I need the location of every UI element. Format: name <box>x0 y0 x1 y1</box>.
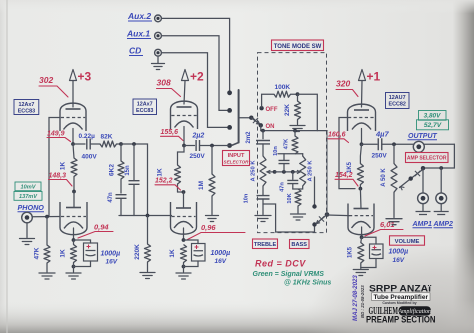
svg-text:10n: 10n <box>244 193 250 203</box>
wire to AMP2 jack <box>440 168 442 193</box>
tone mid rail <box>275 170 299 174</box>
label OUTPUT <box>408 133 438 140</box>
supply arrow +3 <box>70 70 92 108</box>
V2a cathode node <box>182 127 186 148</box>
svg-text:AMP SELECTOR: AMP SELECTOR <box>407 156 447 162</box>
voltage label 154,2 <box>335 172 358 186</box>
V3b plate node <box>359 187 363 209</box>
V1b cathode node <box>72 228 76 242</box>
resistor 220K <box>134 216 151 272</box>
svg-text:160,6: 160,6 <box>328 132 346 139</box>
bass potentiometer A 250 K <box>300 154 314 186</box>
ground under 47K <box>39 273 55 279</box>
svg-text:16V: 16V <box>393 257 405 264</box>
ground under 1M <box>206 216 219 222</box>
title Custom Modified by <box>382 301 416 305</box>
supply arrow +1 <box>359 70 381 108</box>
wire Aux.1 to selector <box>162 36 227 111</box>
svg-text:1K5: 1K5 <box>348 246 354 258</box>
svg-text:47K: 47K <box>284 138 290 149</box>
label PHONO <box>18 203 45 212</box>
ground under V1b cathode <box>66 273 81 279</box>
ground under 10K <box>291 214 306 220</box>
capacitor 4u7 250V output <box>362 130 455 160</box>
triode V1a <box>60 103 86 131</box>
svg-text:154,2: 154,2 <box>335 172 353 179</box>
svg-text:250V: 250V <box>190 153 206 160</box>
svg-text:TONE MODE SW: TONE MODE SW <box>274 44 322 50</box>
treble wiper <box>267 170 277 174</box>
tube V2 label 12Ax7 ECC83 <box>133 99 157 115</box>
svg-text:12Ax7: 12Ax7 <box>18 102 34 108</box>
volume wiper to amp selector <box>400 169 425 191</box>
label VOLUME <box>390 236 425 245</box>
svg-text:AMP1: AMP1 <box>412 221 433 228</box>
svg-text:Green = Signal VRMS: Green = Signal VRMS <box>253 271 325 278</box>
capacitor 10n treble bottom <box>244 186 270 215</box>
svg-text:10mV: 10mV <box>21 184 37 190</box>
voltage label 302 <box>39 75 68 97</box>
ground under treble <box>255 216 271 222</box>
svg-text:400V: 400V <box>82 154 98 161</box>
revision note MAJ 27-08-2023 <box>352 275 365 321</box>
capacitor 47n <box>108 192 127 216</box>
resistor 6K2 <box>109 144 125 193</box>
green label 137mV <box>14 192 42 201</box>
capacitor 2m2 treble <box>246 131 270 156</box>
svg-text:137mV: 137mV <box>19 194 38 200</box>
V1b plate node <box>72 190 76 208</box>
resistor 1M <box>198 144 215 215</box>
ground under 220K <box>140 273 155 279</box>
logo Amplification <box>397 306 431 315</box>
output jack <box>413 141 424 152</box>
svg-text:BD : 21-08-2023: BD : 21-08-2023 <box>360 285 365 318</box>
selector contact Phono <box>227 143 232 148</box>
svg-text:1M: 1M <box>198 181 205 190</box>
selector wiper to tone switch <box>239 116 254 120</box>
phono jack ground <box>20 223 35 245</box>
selector common bus <box>232 90 239 145</box>
svg-text:320: 320 <box>336 79 350 89</box>
label TONE MODE SW <box>272 40 324 51</box>
resistor 47K tone <box>284 131 299 154</box>
resistor 82K <box>100 134 121 148</box>
svg-text:1000µ: 1000µ <box>389 249 409 256</box>
svg-text:TREBLE: TREBLE <box>254 242 277 248</box>
jack AMP2 <box>434 193 449 215</box>
svg-text:16V: 16V <box>215 258 227 265</box>
ground under V3b cathode <box>353 270 368 276</box>
resistor 1K cathode V2b <box>169 245 187 273</box>
V3b cathode node <box>360 227 364 239</box>
voltage label 320 <box>336 79 358 97</box>
svg-text:A 250 K: A 250 K <box>308 160 314 182</box>
svg-text:47K: 47K <box>34 247 41 259</box>
svg-text:10n: 10n <box>273 146 279 156</box>
wire tone output to V3 grid <box>327 131 349 216</box>
label AMP SELECTOR <box>406 153 449 163</box>
triode V2b <box>171 202 197 234</box>
svg-text:Aux.1: Aux.1 <box>126 29 150 39</box>
svg-text:ECC83: ECC83 <box>18 108 35 114</box>
svg-text:155,6: 155,6 <box>161 129 179 136</box>
svg-text:1K: 1K <box>157 168 164 177</box>
resistor 1K5 cathode V3b <box>348 237 364 268</box>
resistor 47K phono load <box>34 217 51 272</box>
bass wiper <box>297 170 301 173</box>
svg-text:82K: 82K <box>101 134 113 141</box>
svg-text:220K: 220K <box>134 244 141 260</box>
bypass switch contact lower <box>312 222 316 226</box>
V2b cathode node <box>182 228 186 242</box>
phono input jack <box>22 212 33 223</box>
capacitor 10n upper <box>273 146 290 172</box>
green label 10mV <box>15 182 41 191</box>
svg-text:12AU7: 12AU7 <box>389 95 406 101</box>
svg-text:2µ2: 2µ2 <box>192 133 205 140</box>
label INPUT SELECTOR <box>223 151 250 166</box>
V3a grid wire <box>339 118 355 189</box>
svg-text:VOLUME: VOLUME <box>395 239 420 245</box>
svg-text:302: 302 <box>39 75 53 85</box>
svg-text:15n: 15n <box>125 165 131 176</box>
resistor 1K cathode V1b <box>60 240 77 272</box>
V2b plate node <box>178 190 186 208</box>
svg-text:1K: 1K <box>60 249 67 258</box>
svg-text:Custom Modified by: Custom Modified by <box>382 301 416 305</box>
voltage label 0,94 <box>78 223 113 239</box>
svg-text:47n: 47n <box>280 182 286 192</box>
svg-text:3,80V: 3,80V <box>424 113 441 120</box>
tone mode switch lever <box>251 118 259 125</box>
svg-text:6K2: 6K2 <box>109 164 116 176</box>
svg-text:1K: 1K <box>60 162 67 171</box>
svg-text:CD: CD <box>129 46 141 56</box>
voltage label 308 <box>157 78 181 97</box>
svg-text:12Ax7: 12Ax7 <box>137 102 153 108</box>
node 100K right <box>296 92 318 130</box>
capacitor 2u2 250V <box>184 133 228 161</box>
wire V2 output to selector <box>228 145 230 147</box>
jack AMP1 <box>416 193 431 215</box>
svg-text:OUTPUT: OUTPUT <box>408 133 438 140</box>
tone section dashed box <box>258 53 327 233</box>
wire CD to selector <box>162 53 227 128</box>
V3a cathode node <box>360 129 364 147</box>
svg-text:@ 1KHz Sinus: @ 1KHz Sinus <box>284 280 331 287</box>
label TREBLE <box>253 239 278 249</box>
ground under V2b cathode <box>176 273 191 279</box>
svg-text:OFF: OFF <box>266 107 278 113</box>
capacitor 1000u 16V bypass V2b <box>184 240 231 267</box>
svg-text:152,2: 152,2 <box>155 178 173 185</box>
svg-text:0,94: 0,94 <box>94 223 109 232</box>
supply arrow +2 <box>182 70 205 105</box>
svg-text:PHONO: PHONO <box>18 203 45 212</box>
svg-text:BASS: BASS <box>291 242 307 248</box>
amp selector bus <box>421 144 455 170</box>
svg-text:MAJ 27-08-2023: MAJ 27-08-2023 <box>352 275 359 321</box>
capacitor 1000u 16V bypass V3b <box>361 237 408 267</box>
title PREAMP SECTION <box>366 315 436 325</box>
wire to AMP1 jack <box>422 168 424 193</box>
tube V1 label 12AX7 ECC83 <box>14 100 39 115</box>
tone input rail <box>261 129 327 133</box>
ground under input jacks <box>152 56 165 69</box>
triode V3b <box>348 204 374 235</box>
input jack CD <box>129 46 161 57</box>
wire phono to V1b grid <box>32 215 60 219</box>
input jack Aux.1 <box>126 29 161 40</box>
svg-text:SELECTOR: SELECTOR <box>224 160 250 165</box>
svg-text:A 50 K: A 50 K <box>381 168 387 187</box>
green label 3,80V <box>419 111 447 121</box>
voltage label 6,01 <box>365 220 403 236</box>
svg-text:+3: +3 <box>78 70 92 84</box>
voltage label 149,9 <box>47 131 71 142</box>
svg-text:Aux.2: Aux.2 <box>127 11 151 21</box>
triode V2a <box>171 101 198 129</box>
resistor 100K <box>262 84 298 107</box>
svg-text:148,3: 148,3 <box>49 173 67 180</box>
svg-text:INPUT: INPUT <box>228 153 245 159</box>
bypass switch contact upper <box>312 177 316 209</box>
bypass switch lever <box>316 212 329 224</box>
svg-text:0.22µ: 0.22µ <box>79 133 96 140</box>
wire ON contact to tone rail <box>260 125 262 130</box>
svg-text:AMP2: AMP2 <box>433 221 454 228</box>
wire Aux.2 to selector <box>162 18 230 90</box>
svg-text:16V: 16V <box>106 259 118 266</box>
tube V3 label 12AU7 ECC82 <box>386 93 410 109</box>
tone switch ON contact <box>259 123 275 130</box>
resistor 10K <box>287 186 303 213</box>
svg-text:Red = DCV: Red = DCV <box>255 259 306 269</box>
svg-text:149,9: 149,9 <box>47 131 65 138</box>
resistor 1K between V2a and V2b <box>157 146 185 193</box>
ground under volume <box>386 219 402 225</box>
svg-text:A 250 K: A 250 K <box>251 160 257 182</box>
svg-text:10K: 10K <box>287 193 293 203</box>
svg-text:250V: 250V <box>372 153 388 160</box>
svg-text:52,7V: 52,7V <box>424 122 442 129</box>
capacitor 0.22u 400V <box>73 133 100 161</box>
logo GUILHEM <box>369 306 399 317</box>
svg-text:0,96: 0,96 <box>201 223 216 232</box>
tone bypass wire <box>263 204 315 232</box>
tone node wire <box>278 153 303 155</box>
svg-text:2m2: 2m2 <box>246 131 252 144</box>
svg-text:ECC83: ECC83 <box>136 108 153 114</box>
title SRPP ANZAI <box>369 284 431 295</box>
voltage label 152,2 <box>155 178 181 191</box>
label AMP1 <box>412 221 433 228</box>
selector contact CD <box>227 125 232 130</box>
svg-text:1000µ: 1000µ <box>211 250 231 257</box>
voltage label 155,6 <box>161 129 184 141</box>
V1a grid wire <box>49 118 60 217</box>
svg-text:PREAMP SECTION: PREAMP SECTION <box>366 315 436 325</box>
capacitor 15n <box>125 144 140 216</box>
resistor 1K5 between V3a and V3b <box>347 144 363 188</box>
svg-text:47n: 47n <box>108 192 114 203</box>
legend Green = Signal VRMS <box>253 271 332 287</box>
triode V3a <box>348 104 376 131</box>
voltage label 148,3 <box>49 173 73 187</box>
treble potentiometer A 250 K <box>251 156 267 186</box>
voltage label 160,6 <box>328 132 349 143</box>
ground under 22K <box>290 126 305 132</box>
voltage label 0,96 <box>188 223 246 240</box>
svg-text:+1: +1 <box>367 70 381 84</box>
V1a cathode node <box>71 129 75 146</box>
svg-text:22K: 22K <box>284 104 291 116</box>
capacitor 47n lower <box>280 172 299 192</box>
svg-text:1K: 1K <box>169 249 176 258</box>
capacitor 1000u 16V bypass V1b <box>74 240 121 267</box>
title Tube Preamplifier <box>372 293 431 301</box>
legend Red = DCV <box>255 259 306 269</box>
svg-text:100K: 100K <box>275 84 291 91</box>
svg-text:ON: ON <box>266 124 275 130</box>
svg-text:308: 308 <box>157 78 171 88</box>
selector contact Aux.2 <box>227 90 232 95</box>
svg-text:1000µ: 1000µ <box>101 251 121 258</box>
green label 52,7V <box>417 120 449 130</box>
input jack Aux.2 <box>127 11 161 22</box>
selector contact Aux.1 <box>227 108 232 113</box>
resistor 1K between V1a and V1b <box>60 144 78 192</box>
label BASS <box>290 240 310 249</box>
svg-text:ECC82: ECC82 <box>389 102 406 108</box>
node 82K output <box>119 142 147 215</box>
resistor 22K <box>284 94 301 124</box>
RIAA node rail <box>119 214 172 218</box>
triode V1b <box>60 202 87 235</box>
svg-text:+2: +2 <box>190 70 204 84</box>
tone switch OFF contact <box>259 106 277 113</box>
volume potentiometer A 50 K <box>381 142 397 217</box>
svg-text:4µ7: 4µ7 <box>375 130 389 139</box>
label AMP2 <box>433 221 454 228</box>
